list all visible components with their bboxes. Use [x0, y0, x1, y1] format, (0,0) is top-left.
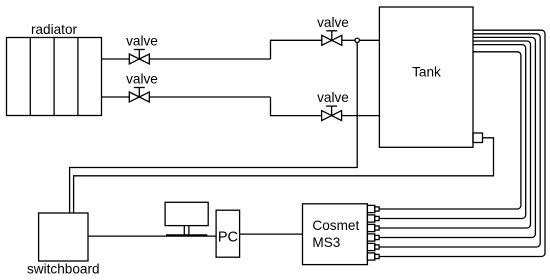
- svg-text:valve: valve: [126, 34, 158, 49]
- svg-text:Tank: Tank: [412, 65, 441, 80]
- svg-text:valve: valve: [317, 15, 349, 30]
- svg-text:MS3: MS3: [312, 235, 340, 250]
- svg-text:Cosmet: Cosmet: [312, 218, 359, 233]
- svg-text:switchboard: switchboard: [27, 262, 100, 277]
- svg-text:valve: valve: [317, 90, 349, 105]
- svg-text:valve: valve: [126, 72, 158, 87]
- svg-text:radiator: radiator: [31, 22, 78, 37]
- svg-text:PC: PC: [218, 229, 238, 245]
